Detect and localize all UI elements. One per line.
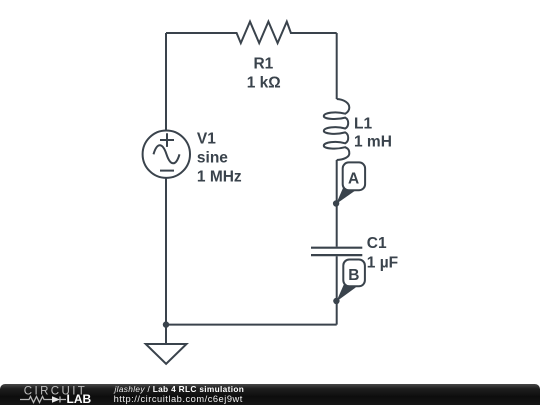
svg-text:L1: L1: [354, 116, 372, 133]
svg-text:A: A: [348, 170, 359, 187]
svg-text:C1: C1: [367, 235, 387, 252]
svg-text:V1: V1: [197, 131, 216, 148]
svg-text:1 µF: 1 µF: [367, 255, 398, 272]
svg-text:1 kΩ: 1 kΩ: [247, 74, 281, 91]
svg-text:LAB: LAB: [67, 392, 92, 405]
svg-text:sine: sine: [197, 150, 228, 167]
svg-text:1 mH: 1 mH: [354, 134, 392, 151]
svg-text:1 MHz: 1 MHz: [197, 169, 242, 186]
svg-text:R1: R1: [253, 56, 273, 73]
svg-text:B: B: [348, 267, 359, 284]
